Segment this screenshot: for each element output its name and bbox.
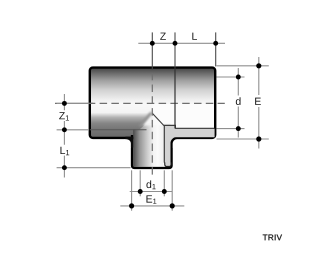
extension line branch axis to top dim <box>151 32 153 69</box>
branch wall end cap outline <box>165 162 171 166</box>
caption TRIV <box>263 235 282 241</box>
extension line bore bottom <box>217 128 245 130</box>
dot E bottom <box>256 136 261 141</box>
extension line branch inner right <box>163 170 165 196</box>
sectioned wall: horizontal socket bottom (gray) <box>164 126 214 137</box>
top dimension line <box>138 42 225 44</box>
dot d1 left <box>138 189 143 194</box>
saddle light wedge (left of branch axis) <box>142 112 153 126</box>
label Z1 <box>59 112 69 120</box>
bottom dimension d1 line <box>130 191 173 193</box>
sectioned wall: branch right wall (gray) <box>164 126 170 167</box>
right dimension d line <box>237 68 239 138</box>
dot d bottom <box>236 126 241 131</box>
extension line socket depth <box>174 32 176 67</box>
extension line body top right <box>217 65 269 67</box>
saddle shading wedge right of shadow <box>152 113 163 125</box>
left fillet body-to-branch <box>125 137 133 148</box>
bore intersection diagonal <box>152 113 164 125</box>
dot Z1 top <box>62 101 67 106</box>
dot d top <box>236 75 241 80</box>
branch (vertical outlet) fill <box>133 124 170 167</box>
branch outline <box>132 135 172 168</box>
centerline horizontal (main axis) <box>55 102 93 104</box>
centerline vertical (branch axis) <box>151 69 153 175</box>
label L1 <box>60 147 69 155</box>
right fillet body-to-branch (sectioned side, gray with outline arc) <box>170 137 178 148</box>
extension line body right end <box>215 32 217 66</box>
label E1 <box>146 195 156 203</box>
extension line body bottom right <box>217 138 269 140</box>
extension line axis level <box>57 102 89 104</box>
dot Z1/L1 <box>62 127 67 132</box>
dot L right <box>213 41 218 46</box>
extension line branch outer right <box>171 170 173 210</box>
extension line bore level <box>57 129 89 131</box>
extension line branch outer left <box>131 170 133 210</box>
extension line bore top <box>217 76 245 78</box>
dot L1 bottom <box>62 165 67 170</box>
dot d1 right <box>162 189 167 194</box>
label L <box>192 33 197 40</box>
socket gap notch at branch mouth <box>164 163 165 167</box>
section cut bore opening (lower right quadrant, white) <box>152 104 214 128</box>
extension line branch mouth level <box>57 167 131 169</box>
extension line branch inner left <box>139 170 141 196</box>
dot E1 right <box>170 203 175 208</box>
dot E1 left <box>129 203 134 208</box>
bore line left socket <box>90 129 147 131</box>
saddle shadow diagonal (soft) <box>140 113 152 127</box>
bore edge: branch inner right wall <box>163 126 165 163</box>
body of tee (horizontal cylinder) <box>90 68 215 138</box>
dot Z/L <box>173 41 178 46</box>
bore edge: socket step lines <box>164 125 215 128</box>
left dimension line <box>63 94 65 178</box>
dot E top <box>256 63 261 68</box>
label d <box>236 97 241 105</box>
label E <box>255 98 261 105</box>
bottom dimension E1 line <box>120 205 184 207</box>
right dimension E line <box>258 57 260 149</box>
label Z <box>160 33 166 40</box>
dot Z left <box>150 41 155 46</box>
label d1 <box>146 180 155 189</box>
